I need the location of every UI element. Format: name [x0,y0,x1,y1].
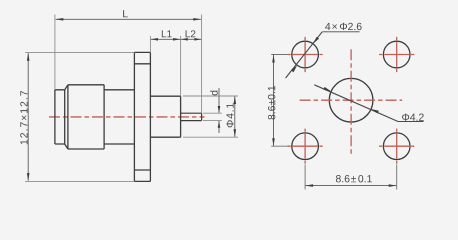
center hole vertical centerline [350,49,352,154]
chamfer ring [65,85,68,149]
label 8.6-bottom value [336,175,350,182]
mounting hole TL [292,41,319,68]
label 4xPhi2.6 digit4 [325,23,330,30]
dimension line L [56,18,201,20]
extension line pin bottom [203,120,222,122]
connector cap [55,90,65,144]
leader 4xPhi2.6 [286,32,323,78]
extension line L left [54,15,56,90]
right cylinder [150,96,180,137]
label 12.7x12.7 [20,91,27,144]
dimension line d lower [218,121,220,133]
extension line phi4.1 bottom [183,136,238,138]
extension line L1 left [149,36,151,52]
center pin [181,113,202,120]
label 4xPhi2.6 phi26 [340,23,362,30]
extension line pin top [203,112,222,114]
extension line phi4.1 top [183,95,238,97]
extension line L1 right / L2 left [180,36,182,96]
label d [210,91,218,96]
label 8.6-left [268,86,275,120]
extension line 12.7 bottom [25,180,134,182]
center hole phi4.2 [329,78,373,122]
dimension line phi4.1 [234,96,236,136]
dimension line 8.6-left [273,55,275,146]
label 4xPhi2.6 times [332,24,337,29]
flange side view [134,52,150,181]
label L1 [162,30,172,37]
label phi4.2 underline [398,121,424,123]
extension line 8.6-left top [271,54,287,56]
label L2 [186,30,196,37]
extension line 8.6-bottom right [396,165,398,190]
dimension line d upper [218,88,220,113]
hole BR centerlines [379,145,414,147]
extension line L / L2 right [201,15,203,114]
body section C [104,90,134,144]
label 4xPhi2.6 underline [322,31,359,33]
mounting hole BL [292,133,319,160]
dimension line L2 [181,38,202,40]
hole TR centerlines [379,54,414,56]
label 8.6-bottom pm [351,176,356,182]
label phi4.2 [402,114,424,121]
mounting hole TR [383,41,410,68]
hole BL centerlines [288,145,323,147]
label phi4.1 [226,103,233,127]
extension line 8.6-bottom left [304,165,306,190]
body section B [68,85,104,149]
dimension line 12.7x12.7 [27,53,29,180]
extension line 12.7 top [25,51,134,53]
hole TL centerlines [288,54,323,56]
leader phi4.2 [314,85,398,122]
center hole horizontal centerline [300,99,403,101]
dimension line L1 [151,38,181,40]
dimension line 8.6-bottom [306,185,397,187]
centerline left view [49,116,205,118]
extension line 8.6-left bottom [271,145,287,147]
mounting hole BR [383,133,410,160]
label L [123,10,128,17]
label 8.6-bottom tol [358,175,372,182]
